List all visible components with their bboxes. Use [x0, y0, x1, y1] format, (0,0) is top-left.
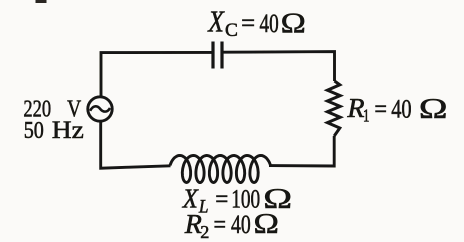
svg-text:=: =: [374, 95, 387, 124]
svg-text:Ω: Ω: [281, 7, 306, 39]
svg-text:Ω: Ω: [419, 93, 448, 124]
label XL = 100 ohm: [182, 183, 292, 217]
capacitor C right plate: [220, 42, 223, 69]
label R2 = 40 ohm: [184, 208, 279, 242]
stray mark top edge: [36, 0, 47, 3]
svg-text:Ω: Ω: [254, 208, 279, 240]
svg-text:50: 50: [24, 116, 44, 143]
label 220 V: [23, 95, 81, 122]
resistor R1 zigzag: [327, 81, 340, 136]
inductor L coil: [170, 156, 271, 183]
wire: capacitor right plate to resistor R1 top: [224, 52, 335, 81]
svg-text:40: 40: [260, 9, 279, 37]
AC source sine wave: [90, 106, 110, 111]
wire: source top to capacitor left plate: [101, 52, 212, 96]
svg-text:X: X: [207, 6, 225, 40]
AC source circle: [88, 97, 112, 121]
label 50 Hz: [24, 115, 84, 144]
svg-text:40: 40: [231, 209, 251, 238]
label XC = 40 ohm: [207, 6, 305, 41]
svg-text:2: 2: [200, 222, 209, 242]
svg-text:1: 1: [363, 107, 369, 127]
capacitor C left plate: [211, 42, 214, 69]
svg-text:Hz: Hz: [52, 115, 84, 144]
svg-text:R: R: [346, 92, 364, 122]
svg-text:40: 40: [391, 95, 411, 124]
svg-text:R: R: [184, 208, 202, 238]
svg-text:=: =: [241, 9, 255, 38]
svg-text:=: =: [214, 210, 227, 239]
wire: coil left end to source bottom: [101, 122, 171, 169]
wire: resistor R1 bottom to coil right end: [269, 136, 334, 166]
svg-text:C: C: [225, 20, 238, 41]
label R1 = 40 ohm: [346, 92, 447, 126]
